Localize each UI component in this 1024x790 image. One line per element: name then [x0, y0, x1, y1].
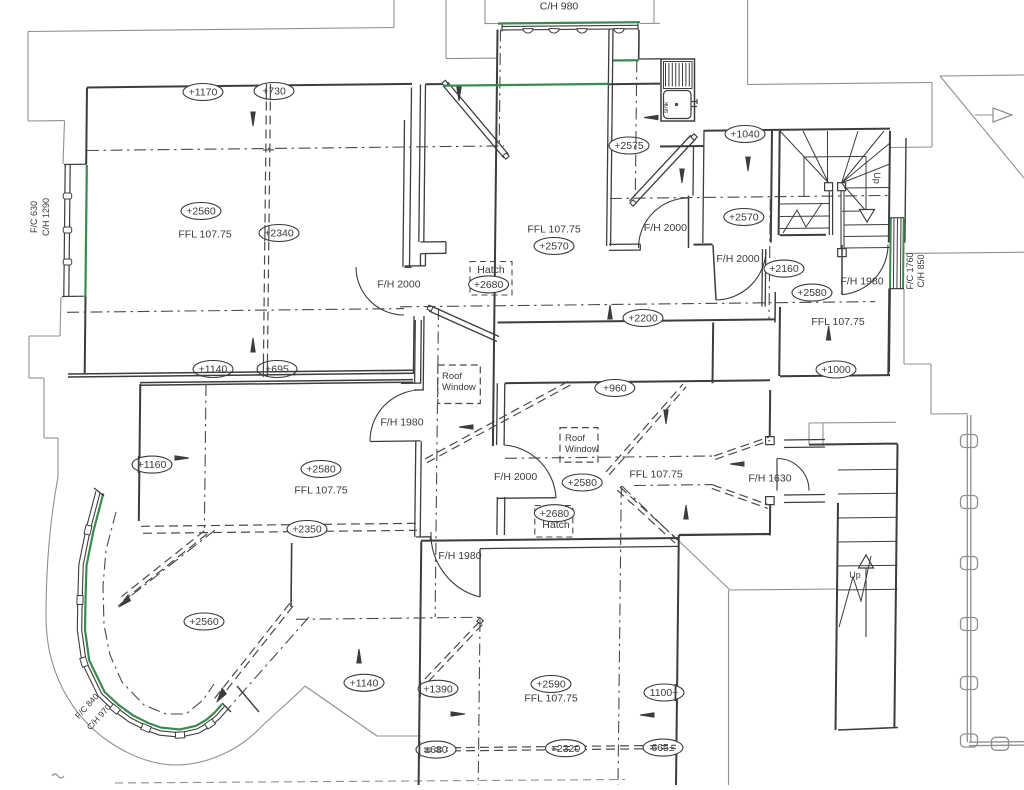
svg-text:Up: Up — [872, 172, 882, 184]
svg-text:+2580: +2580 — [306, 464, 336, 476]
svg-text:F/H 1630: F/H 1630 — [748, 473, 791, 485]
svg-text:F/H 2000: F/H 2000 — [377, 279, 420, 291]
svg-text:+695: +695 — [265, 364, 289, 376]
svg-text:+1170: +1170 — [189, 87, 218, 99]
svg-text:+2200: +2200 — [628, 313, 658, 325]
svg-text:+2580: +2580 — [797, 287, 827, 299]
svg-text:F/C 1760: F/C 1760 — [905, 252, 915, 289]
svg-text:+2680: +2680 — [540, 508, 570, 520]
svg-text:+2580: +2580 — [567, 477, 597, 489]
svg-text:+2575: +2575 — [614, 140, 644, 152]
svg-text:sink: sink — [663, 101, 670, 113]
svg-text:C/H 850: C/H 850 — [916, 254, 926, 287]
svg-text:+2350: +2350 — [292, 524, 322, 536]
svg-text:F/C 630: F/C 630 — [29, 201, 39, 233]
svg-text:+1140: +1140 — [199, 364, 228, 376]
svg-text:+2570: +2570 — [539, 241, 569, 253]
svg-text:+1160: +1160 — [138, 459, 167, 471]
svg-text:+2320: +2320 — [551, 743, 581, 755]
svg-text:C/H 1290: C/H 1290 — [41, 198, 51, 236]
svg-text:1100+: 1100+ — [650, 687, 679, 699]
svg-text:F/H 1980: F/H 1980 — [380, 417, 423, 429]
svg-text:Roof: Roof — [442, 371, 462, 382]
svg-text:FFL 107.75: FFL 107.75 — [811, 316, 864, 328]
svg-text:+730: +730 — [262, 86, 286, 98]
svg-text:±680: ±680 — [424, 744, 447, 756]
svg-text:Window: Window — [442, 382, 476, 393]
svg-text:+1000: +1000 — [821, 364, 851, 376]
svg-text:+2680: +2680 — [474, 279, 504, 291]
svg-text:+2560: +2560 — [186, 206, 216, 218]
svg-text:FFL 107.75: FFL 107.75 — [524, 693, 577, 705]
svg-text:FFL 107.75: FFL 107.75 — [527, 224, 580, 236]
svg-text:+1140: +1140 — [350, 677, 379, 689]
svg-text:C/H 980: C/H 980 — [540, 1, 579, 13]
svg-text:FFL 107.75: FFL 107.75 — [178, 229, 231, 241]
svg-text:+1040: +1040 — [730, 129, 760, 141]
svg-text:+960: +960 — [603, 383, 627, 395]
svg-text:Window: Window — [565, 444, 599, 455]
svg-text:+2560: +2560 — [189, 616, 219, 628]
svg-text:F/H 2000: F/H 2000 — [494, 471, 537, 483]
svg-text:Hatch: Hatch — [542, 519, 570, 531]
svg-text:FFL 107.75: FFL 107.75 — [294, 485, 347, 497]
svg-text:F/H 1980: F/H 1980 — [840, 276, 883, 288]
svg-text:F/H 1980: F/H 1980 — [438, 550, 481, 562]
svg-text:F/H 2000: F/H 2000 — [716, 253, 759, 265]
svg-text:+2570: +2570 — [729, 212, 759, 224]
svg-text:Hatch: Hatch — [477, 264, 505, 276]
svg-text:+1390: +1390 — [423, 683, 453, 695]
svg-text:Up: Up — [849, 570, 861, 580]
svg-text:+2590: +2590 — [536, 679, 566, 691]
svg-text:+2160: +2160 — [769, 263, 799, 275]
svg-text:FFL 107.75: FFL 107.75 — [629, 469, 682, 481]
svg-text:F/H 2000: F/H 2000 — [644, 222, 687, 234]
svg-text:Roof: Roof — [565, 433, 585, 444]
